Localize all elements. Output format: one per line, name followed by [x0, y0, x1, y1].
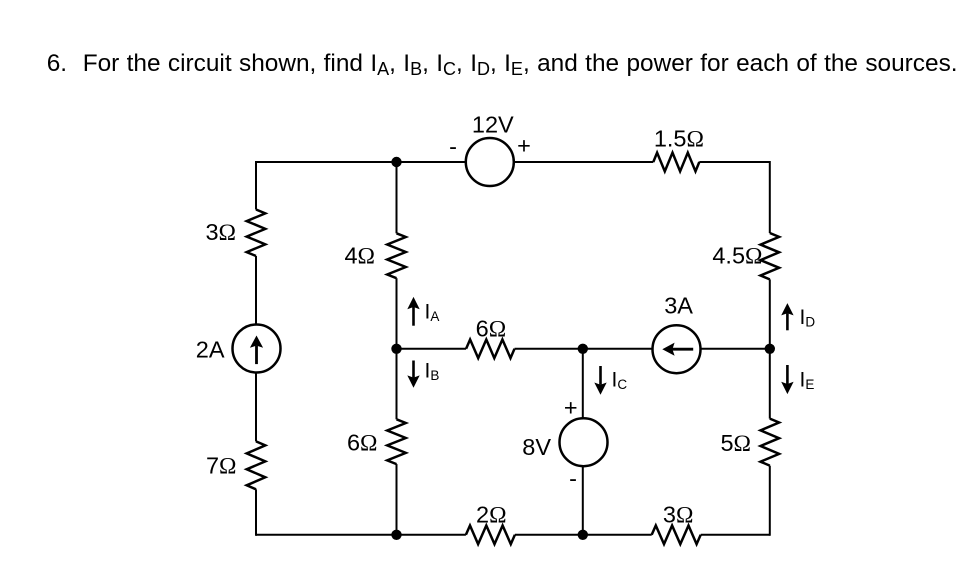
- svg-text:5Ω: 5Ω: [720, 430, 751, 457]
- resistor 2-ohm (bottom left): [466, 526, 515, 545]
- current source 3A: [653, 325, 701, 373]
- wire right vertical: 5-ohm resistor to bottom corner: [769, 466, 771, 536]
- svg-text:IB: IB: [425, 359, 440, 383]
- resistor 3-ohm (left top): [247, 210, 266, 257]
- voltage source 8V: [560, 418, 608, 466]
- wire right vertical: right node to 5-ohm resistor: [769, 349, 771, 419]
- junction dot: node C junction: [578, 344, 588, 354]
- voltage source 12V: [466, 138, 514, 186]
- resistor 4.5-ohm (right upper): [761, 233, 780, 279]
- svg-text:3A: 3A: [664, 293, 693, 319]
- svg-text:3Ω: 3Ω: [663, 501, 694, 528]
- svg-text:2Ω: 2Ω: [476, 501, 507, 528]
- wire bottom horizontal: 2-ohm resistor to 3-ohm resistor: [515, 534, 652, 536]
- current arrow I_C (down): [599, 366, 602, 385]
- current arrow I_E (down): [786, 365, 789, 384]
- svg-text:+: +: [517, 133, 531, 159]
- junction dot: bottom 8V-branch node: [578, 530, 588, 540]
- svg-text:8V: 8V: [522, 434, 551, 460]
- current source 2A: [233, 325, 281, 373]
- junction dot: right node D/E junction: [765, 344, 775, 354]
- current arrow I_D (up): [786, 313, 789, 330]
- wire top horizontal segment between 12V source and 1.5-ohm resistor: [514, 161, 654, 163]
- junction dot: bottom middle-left node: [391, 530, 401, 540]
- wire 8V branch vertical: node to 8V source: [582, 349, 584, 430]
- svg-text:1.5Ω: 1.5Ω: [654, 126, 704, 153]
- svg-text:IC: IC: [612, 369, 628, 393]
- wire left vertical: 3-ohm resistor to 2A source: [255, 256, 257, 330]
- svg-text:4.5Ω: 4.5Ω: [712, 243, 762, 270]
- wire 8V branch vertical: 8V source to bottom node: [582, 455, 584, 535]
- svg-text:2A: 2A: [196, 337, 225, 363]
- wire left vertical: 7-ohm resistor to bottom corner: [255, 489, 257, 536]
- svg-text:6Ω: 6Ω: [347, 430, 378, 457]
- resistor 3-ohm (bottom right): [652, 526, 701, 545]
- svg-text:3Ω: 3Ω: [205, 219, 236, 246]
- wire middle horizontal: node to 6-ohm resistor: [397, 348, 467, 350]
- wire top-right horizontal segment: [699, 161, 770, 163]
- wire middle vertical: 4-ohm resistor to middle node: [396, 278, 398, 349]
- junction dot: top middle node: [391, 157, 401, 167]
- svg-text:ID: ID: [800, 306, 816, 330]
- wire left vertical: 2A source to 7-ohm resistor: [255, 367, 257, 441]
- wire right vertical: 4.5-ohm resistor to right node: [769, 279, 771, 348]
- svg-text:IE: IE: [800, 369, 815, 393]
- wire middle horizontal: 6-ohm resistor to 8V branch node: [515, 348, 583, 350]
- wire left vertical: top corner to 3-ohm resistor: [255, 161, 257, 210]
- problem title text: [47, 48, 958, 81]
- resistor 6-ohm (middle lower vertical): [387, 419, 406, 464]
- wire middle vertical: 6-ohm resistor to bottom node: [396, 464, 398, 535]
- wire middle horizontal: 8V branch node through 3A source to right node: [583, 348, 770, 350]
- svg-text:7Ω: 7Ω: [206, 453, 237, 480]
- wire middle vertical: top node to 4-ohm resistor: [396, 162, 398, 233]
- wire middle vertical: middle node to 6-ohm resistor: [396, 349, 398, 420]
- svg-text:12V: 12V: [472, 112, 514, 138]
- svg-text:-: -: [449, 134, 457, 160]
- resistor 6-ohm (middle horizontal): [466, 340, 514, 359]
- wire bottom horizontal: left corner to 2-ohm resistor: [256, 534, 466, 536]
- resistor 4-ohm (middle upper): [387, 233, 406, 278]
- junction dot: node A/B junction: [391, 344, 401, 354]
- svg-text:6Ω: 6Ω: [476, 315, 507, 342]
- current arrow I_A (up): [412, 307, 415, 326]
- resistor 7-ohm (left bottom): [247, 441, 266, 489]
- wire right vertical: top corner to 4.5-ohm resistor: [769, 161, 771, 233]
- resistor 5-ohm (right lower): [761, 419, 780, 466]
- svg-text:4Ω: 4Ω: [344, 243, 375, 270]
- wire bottom horizontal: 3-ohm resistor to right corner: [701, 534, 770, 536]
- svg-text:IA: IA: [425, 300, 440, 324]
- svg-text:-: -: [569, 466, 577, 492]
- resistor 1.5-ohm (top): [653, 153, 699, 172]
- svg-text:+: +: [564, 395, 578, 421]
- wire top-left horizontal segment: [256, 161, 466, 163]
- current arrow I_B (down): [412, 361, 415, 378]
